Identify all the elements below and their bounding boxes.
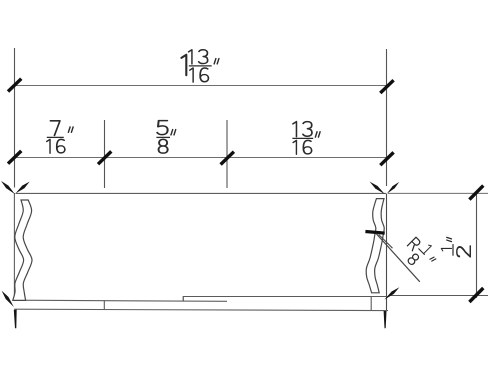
tick vdim bottom [469, 288, 483, 302]
radius leader line [376, 234, 420, 282]
tick dim2 left [8, 151, 21, 164]
seam divider x371 [370, 296, 372, 310]
bottom step riser [182, 296, 184, 301]
vertical dimension line 1/2 [476, 192, 478, 298]
corner spike top-left inner [16, 182, 30, 194]
corner spike top-left outer [1, 181, 15, 194]
tick dim1 left [8, 79, 21, 92]
leader text R 1/8 inch rotated 45 [400, 234, 441, 275]
part top edge [16, 192, 387, 194]
tick dim2 x104 [98, 151, 111, 164]
dimension text 1/2 inch rotated [441, 237, 470, 256]
break line left ribbon [13, 200, 32, 300]
extension line right [386, 49, 388, 186]
bottom plate lower edge [14, 309, 388, 310]
top edge extension to vertical dim [388, 192, 488, 194]
dimension line row2 [15, 157, 387, 159]
part left edge [13, 193, 15, 300]
corner spike top-right outer [387, 182, 399, 194]
radius leader arrow barb [379, 235, 393, 249]
bottom upper edge with extension [183, 296, 488, 297]
tick dim2 x227 [221, 152, 234, 165]
part bottom inner edge [14, 300, 227, 301]
corner spike bottom-right vertical [384, 311, 387, 328]
corner spike bottom-right diagonal [384, 287, 399, 299]
tick vdim top [469, 186, 483, 200]
dimension text 7/16 inch [47, 121, 73, 153]
radius leader tick [365, 232, 384, 234]
extension line mid B [226, 120, 228, 188]
dimension text 1 13/16 inch [181, 50, 219, 82]
extension line mid A [104, 120, 106, 188]
corner spike top-right inner [370, 182, 385, 195]
break line right ribbon [366, 199, 384, 293]
corner spike bottom-left vertical [14, 310, 17, 329]
dimension text 5/8 inch [156, 121, 175, 154]
corner spike bottom-left diagonal [2, 291, 14, 307]
extension line left [14, 48, 16, 188]
seam tick x104 [103, 300, 105, 309]
dimension line overall 1 13/16 [15, 85, 387, 87]
tick dim1 right [380, 80, 393, 93]
part right edge [386, 194, 388, 311]
dimension text 13/16 inch [292, 122, 320, 155]
tick dim2 right [380, 152, 393, 165]
